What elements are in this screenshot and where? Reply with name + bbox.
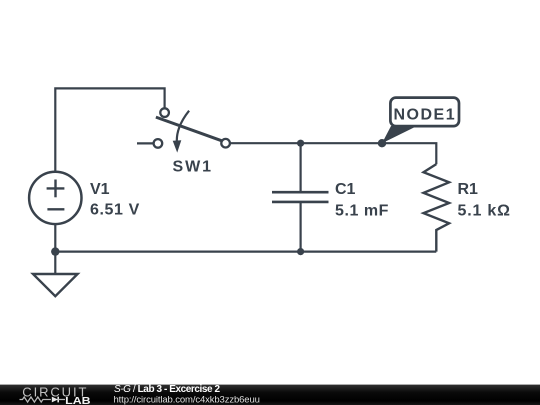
label SW1 bbox=[173, 159, 213, 176]
wire: V1 bottom to ground node bbox=[54, 224, 56, 274]
CircuitLab logo bbox=[20, 384, 92, 405]
node dot NODE1 bbox=[378, 139, 386, 147]
svg-text:SW1: SW1 bbox=[173, 159, 213, 176]
switch SW1 bbox=[137, 108, 230, 152]
svg-text:C1: C1 bbox=[335, 181, 356, 198]
resistor R1 bbox=[424, 164, 450, 252]
wire: bottom horizontal bbox=[55, 251, 436, 253]
capacitor C1 bbox=[272, 143, 329, 251]
label V1 value bbox=[90, 181, 140, 219]
wire: top horizontal from V1 to switch bbox=[55, 88, 164, 174]
svg-text:NODE1: NODE1 bbox=[393, 107, 456, 124]
junction dot bottom-left bbox=[51, 247, 59, 255]
voltage source V1 bbox=[29, 172, 81, 224]
svg-text:5.1 kΩ: 5.1 kΩ bbox=[458, 203, 511, 220]
svg-text:V1: V1 bbox=[90, 181, 110, 198]
footer bar bbox=[0, 385, 540, 405]
wire: switch to resistor top bbox=[230, 143, 436, 164]
label R1 value bbox=[458, 181, 511, 220]
label C1 value bbox=[335, 181, 389, 220]
junction dot capacitor bottom bbox=[297, 248, 304, 255]
svg-text:6.51 V: 6.51 V bbox=[90, 202, 140, 219]
svg-text:http://circuitlab.com/c4xkb3zz: http://circuitlab.com/c4xkb3zzb6euu bbox=[114, 394, 260, 405]
ground bbox=[33, 274, 78, 296]
svg-text:R1: R1 bbox=[458, 181, 479, 198]
footer title text bbox=[114, 384, 260, 405]
junction dot capacitor top bbox=[297, 140, 304, 147]
node NODE1 flag bbox=[382, 98, 459, 144]
svg-text:S-G / Lab 3 - Excercise 2: S-G / Lab 3 - Excercise 2 bbox=[114, 384, 221, 395]
svg-text:LAB: LAB bbox=[65, 395, 91, 405]
svg-text:5.1 mF: 5.1 mF bbox=[335, 203, 389, 220]
